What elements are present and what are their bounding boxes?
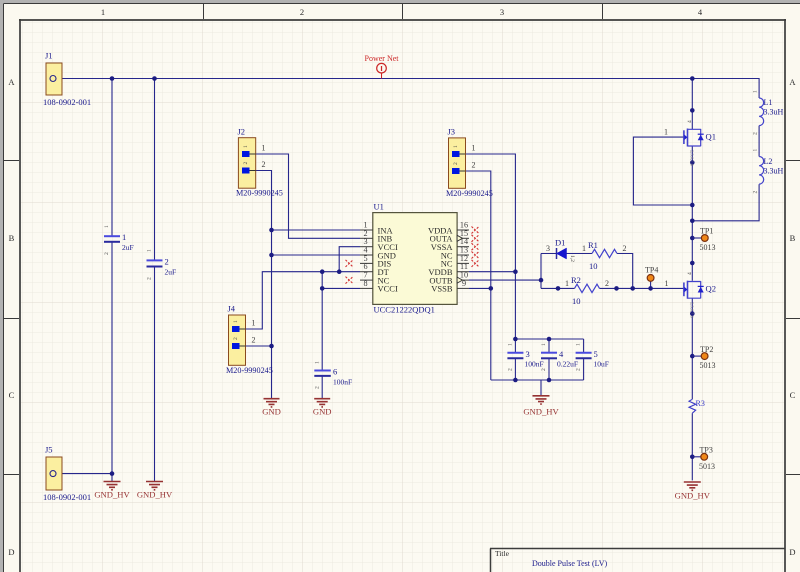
wire power rail <box>57 79 760 99</box>
svg-text:GND_HV: GND_HV <box>523 407 559 417</box>
wire J3 pin1 to VDDB vertical <box>465 154 515 339</box>
svg-text:A: A <box>8 77 15 87</box>
svg-text:B: B <box>790 233 796 243</box>
transistor Q2 <box>665 272 717 319</box>
svg-text:R3: R3 <box>696 399 705 408</box>
svg-text:J3: J3 <box>448 127 456 137</box>
wire capacitor bank rails <box>491 339 584 396</box>
title block <box>490 549 785 572</box>
svg-text:1: 1 <box>565 279 569 288</box>
svg-text:2: 2 <box>472 161 476 170</box>
svg-text:0.22uF: 0.22uF <box>557 360 578 369</box>
svg-text:J4: J4 <box>228 304 236 314</box>
wire J3 pin2 to VSSB vertical <box>465 171 491 380</box>
svg-text:2: 2 <box>315 386 321 389</box>
svg-text:UCC21222QDQ1: UCC21222QDQ1 <box>374 305 435 315</box>
wire J2 pin2 to GND vertical <box>256 171 272 399</box>
svg-text:1: 1 <box>753 149 759 152</box>
ground GND under C6 <box>313 399 332 417</box>
wire C1 branch <box>111 79 113 482</box>
no-ERC marks right pins 16-12 <box>472 227 480 267</box>
test point TP4 <box>645 266 658 282</box>
svg-text:3: 3 <box>546 244 550 253</box>
svg-text:TP4: TP4 <box>645 266 658 275</box>
svg-text:D: D <box>789 547 795 557</box>
svg-text:M20-9990245: M20-9990245 <box>236 189 283 198</box>
wire C6 branch <box>321 272 323 398</box>
capacitor C1 <box>104 225 134 255</box>
svg-text:Power Net: Power Net <box>365 54 400 63</box>
svg-text:1: 1 <box>101 7 105 17</box>
wire J2 pin1 to INB <box>256 154 360 238</box>
wire J4 pin1 to DT row <box>246 272 361 329</box>
svg-text:2: 2 <box>605 279 609 288</box>
test point TP3 <box>692 445 715 471</box>
ground GND under J4 net <box>262 399 281 417</box>
svg-text:2: 2 <box>147 277 153 280</box>
wire Q1 gate loop <box>633 137 692 205</box>
wire OUTB row <box>469 279 541 281</box>
header J4 <box>226 304 273 376</box>
svg-text:1: 1 <box>453 145 459 148</box>
connector J1 <box>43 51 91 108</box>
svg-text:3: 3 <box>500 7 504 17</box>
U1 right pins 16-9 <box>428 221 469 294</box>
svg-text:1: 1 <box>262 144 266 153</box>
svg-text:2: 2 <box>165 257 169 267</box>
transistor Q1 <box>664 120 716 167</box>
svg-text:5013: 5013 <box>699 462 715 471</box>
connector J5 <box>43 445 91 503</box>
svg-text:1: 1 <box>508 343 514 346</box>
svg-text:2: 2 <box>623 244 627 253</box>
wire VDDB row <box>469 271 515 273</box>
svg-text:R2: R2 <box>571 275 581 285</box>
svg-text:Title: Title <box>495 549 510 558</box>
ground GND_HV bottom right <box>675 482 711 501</box>
svg-text:10uF: 10uF <box>594 360 609 369</box>
svg-text:A: A <box>789 77 796 87</box>
svg-text:TP3: TP3 <box>700 445 713 454</box>
svg-text:2: 2 <box>576 368 582 371</box>
svg-text:10: 10 <box>572 296 581 306</box>
resistor R3 <box>689 399 705 413</box>
svg-text:M20-9990245: M20-9990245 <box>226 366 273 375</box>
diode D1 <box>546 238 575 263</box>
test point TP1 <box>692 227 715 253</box>
svg-text:108-0902-001: 108-0902-001 <box>43 97 91 107</box>
ground GND_HV left b <box>137 482 173 500</box>
wire J5 to GND_HV <box>57 473 113 475</box>
capacitor C2 <box>147 249 177 280</box>
svg-text:GND_HV: GND_HV <box>94 490 130 500</box>
svg-text:VCCI: VCCI <box>378 284 398 294</box>
wire GND row pin4 <box>272 254 361 256</box>
wire C2 branch <box>154 79 156 482</box>
svg-text:J1: J1 <box>45 51 53 61</box>
resistor R1 <box>582 240 627 271</box>
svg-text:2uF: 2uF <box>122 243 134 252</box>
svg-text:C: C <box>9 390 15 400</box>
wire R2 row to Q2 gate <box>541 287 684 289</box>
svg-text:M20-9990245: M20-9990245 <box>446 189 493 198</box>
svg-text:B: B <box>9 233 15 243</box>
inductor L2 <box>753 149 784 194</box>
svg-text:3.3uH: 3.3uH <box>764 167 784 176</box>
header J3 <box>446 127 493 199</box>
svg-text:4: 4 <box>687 120 693 123</box>
svg-text:3: 3 <box>526 349 530 359</box>
capacitor C5 <box>576 343 609 371</box>
ground GND_HV cap bank <box>523 396 559 417</box>
svg-text:2: 2 <box>753 132 759 135</box>
svg-text:U1: U1 <box>374 202 384 212</box>
svg-text:1: 1 <box>104 225 110 228</box>
svg-text:5: 5 <box>594 349 598 359</box>
svg-text:1: 1 <box>233 320 239 323</box>
power net directive <box>365 54 400 79</box>
svg-text:2: 2 <box>541 368 547 371</box>
svg-text:GND: GND <box>262 407 281 417</box>
svg-text:D1: D1 <box>555 238 565 248</box>
wire D1 R1 branch <box>541 254 633 289</box>
svg-text:J5: J5 <box>45 445 53 455</box>
capacitor C4 <box>541 343 578 371</box>
resistor R2 <box>565 275 609 306</box>
svg-text:2uF: 2uF <box>165 268 177 277</box>
svg-text:1: 1 <box>315 361 321 364</box>
no-ERC marks left pins 5 and 7 <box>346 260 354 284</box>
svg-text:100nF: 100nF <box>333 378 352 387</box>
wire L1 L2 chain to node <box>692 126 759 221</box>
ground GND_HV left a <box>94 482 130 500</box>
svg-text:D: D <box>8 547 14 557</box>
op-amp U1 UCC21222QDQ1 <box>373 202 457 315</box>
U1 left pins 1-8 <box>360 221 398 294</box>
svg-text:L2: L2 <box>764 157 773 166</box>
svg-text:1: 1 <box>472 144 476 153</box>
svg-text:1: 1 <box>665 279 669 288</box>
wire main switch vertical <box>691 79 693 481</box>
capacitor C3 <box>507 343 543 371</box>
svg-text:1: 1 <box>753 90 759 93</box>
svg-text:2: 2 <box>753 191 759 194</box>
wire VCCI pin8 row <box>322 287 360 289</box>
svg-text:2: 2 <box>104 252 110 255</box>
svg-text:1: 1 <box>252 319 256 328</box>
svg-text:1,2: 1,2 <box>569 255 575 262</box>
inductor L1 <box>753 90 784 135</box>
svg-text:GND_HV: GND_HV <box>675 491 711 501</box>
svg-text:8: 8 <box>363 279 367 288</box>
svg-text:4: 4 <box>687 272 693 275</box>
wire VSSB row <box>469 287 491 289</box>
svg-text:GND: GND <box>313 407 332 417</box>
capacitor C6 <box>314 361 352 389</box>
svg-text:L1: L1 <box>764 98 773 107</box>
wire INA row <box>272 229 361 231</box>
svg-text:R1: R1 <box>588 240 598 250</box>
svg-text:TP2: TP2 <box>700 345 713 354</box>
svg-text:2: 2 <box>252 336 256 345</box>
svg-text:3.3uH: 3.3uH <box>764 108 784 117</box>
svg-text:5013: 5013 <box>700 361 716 370</box>
svg-text:6: 6 <box>333 367 337 377</box>
wire TP4 stub <box>650 281 652 288</box>
svg-text:108-0902-001: 108-0902-001 <box>43 492 91 502</box>
svg-text:C: C <box>790 390 796 400</box>
wire VCCI pin3 branch <box>339 247 360 272</box>
svg-text:2: 2 <box>453 162 459 165</box>
svg-text:1: 1 <box>576 343 582 346</box>
svg-text:1: 1 <box>122 232 126 242</box>
svg-text:GND_HV: GND_HV <box>137 490 173 500</box>
svg-text:1: 1 <box>541 343 547 346</box>
svg-text:100nF: 100nF <box>525 360 544 369</box>
wire J4 pin2 <box>246 345 272 347</box>
svg-text:VSSB: VSSB <box>431 284 453 294</box>
svg-text:5013: 5013 <box>700 243 716 252</box>
svg-text:1: 1 <box>582 244 586 253</box>
svg-text:10: 10 <box>589 261 598 271</box>
svg-text:1: 1 <box>664 128 668 137</box>
test point TP2 <box>692 345 715 370</box>
svg-text:2: 2 <box>300 7 304 17</box>
svg-text:1: 1 <box>147 249 153 252</box>
svg-text:Q2: Q2 <box>706 284 717 294</box>
svg-text:J2: J2 <box>238 127 246 137</box>
svg-text:1: 1 <box>243 145 249 148</box>
svg-text:2: 2 <box>243 162 249 165</box>
svg-text:TP1: TP1 <box>700 227 713 236</box>
svg-text:Q1: Q1 <box>706 132 717 142</box>
svg-text:2: 2 <box>508 368 514 371</box>
svg-text:Double Pulse Test (LV): Double Pulse Test (LV) <box>532 559 608 568</box>
svg-text:2: 2 <box>262 160 266 169</box>
header J2 <box>236 127 283 198</box>
svg-text:2: 2 <box>233 337 239 340</box>
